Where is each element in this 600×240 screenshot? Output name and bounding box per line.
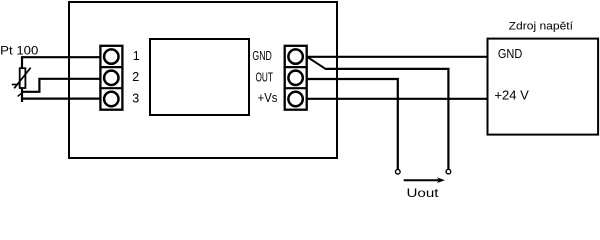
svg-text:OUT: OUT: [256, 70, 274, 84]
svg-text:+24 V: +24 V: [494, 88, 529, 103]
module U1 outline: [69, 2, 337, 158]
RT1 diagonal foot: [12, 84, 19, 86]
wire W4 (GND terminal to supply GND): [307, 56, 488, 58]
arrow indicating Uout direction: [404, 177, 445, 183]
TB2 GND terminal circle: [288, 49, 302, 63]
resistor RT1 (Pt100 sensor body): [20, 68, 26, 88]
TB1 pin 2 terminal circle: [104, 71, 118, 85]
svg-text:GND: GND: [252, 49, 272, 63]
TB1 pin 1 terminal circle: [104, 49, 118, 63]
wire W1 (RT1 top to pin 1): [22, 57, 100, 68]
svg-text:Pt 100: Pt 100: [0, 44, 39, 58]
svg-text:Uout: Uout: [407, 186, 440, 197]
TB1 pin 3 terminal circle: [104, 92, 118, 106]
wire W7 (OUT terminal down to Uout left node): [307, 79, 398, 169]
power supply PS1 box: [488, 39, 599, 135]
wire W6 (GND branch down to Uout right node): [325, 69, 448, 169]
RT1 bottom lead: [21, 88, 23, 103]
wire W5 diagonal from GND terminal: [308, 57, 326, 69]
wire W8 (+Vs terminal to supply +24 V): [307, 98, 488, 100]
svg-text:+Vs: +Vs: [258, 91, 278, 105]
svg-text:Zdroj napětí: Zdroj napětí: [509, 20, 573, 32]
TB2 OUT terminal circle: [288, 71, 302, 85]
RT1 lead tick: [18, 93, 22, 96]
wire W3 (RT1 bottom to pin 3): [22, 97, 100, 99]
svg-text:GND: GND: [498, 46, 522, 61]
svg-text:1: 1: [133, 49, 140, 63]
RT1 diagonal stroke: [14, 68, 31, 89]
inner block of module U1: [150, 39, 249, 115]
terminal block TB1 body (left): [99, 46, 122, 110]
terminal block TB2 body (right): [284, 46, 307, 110]
TB2 +Vs terminal circle: [288, 92, 302, 106]
svg-text:3: 3: [132, 91, 139, 105]
wire W2 (RT1 bottom branch to pin 2): [22, 79, 100, 92]
svg-text:2: 2: [132, 70, 139, 84]
node N2 (Uout right, open circle): [446, 169, 451, 174]
node N1 (Uout left, open circle): [396, 169, 401, 174]
